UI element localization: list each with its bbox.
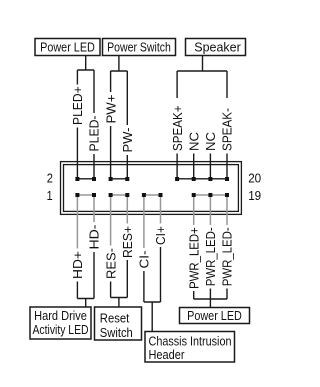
svg-text:SPEAK-: SPEAK- [220,108,235,151]
svg-text:Activity LED: Activity LED [33,322,89,337]
wire: NC segment to pin 18 [209,154,211,178]
wire: CI pair lower bracket to Chassis Intrusion Header box [144,247,161,332]
wire: PWR_LED+ gray segment from pin 15 [193,197,195,225]
pin pair connector pins 2-4 (top row) [77,178,94,180]
wire: HD pair lower bracket to Hard Drive Activity LED box [77,252,94,307]
svg-text:Switch: Switch [100,325,133,340]
Chassis Intrusion Header box (bottom) [145,332,235,363]
wire: HD- gray segment from pin 3 [93,197,95,222]
wire: PWR_LED- gray segment from pin 17 [209,197,211,225]
pin 18 [208,177,212,181]
pin group connector pins 14-20 (top row) [177,178,227,180]
svg-text:Reset: Reset [100,311,130,326]
svg-text:RES+: RES+ [120,226,135,258]
Speaker connector box (top) [186,39,246,56]
pin 4 [92,177,96,181]
svg-text:SPEAK+: SPEAK+ [170,106,185,152]
pin 8 [125,177,129,181]
front panel header outer outline [61,162,242,215]
Reset Switch box (bottom) [95,307,142,340]
svg-text:PWR_LED-: PWR_LED- [203,227,218,286]
pin 3 [92,193,96,197]
pin 7 [125,193,129,197]
svg-text:PWR_LED-: PWR_LED- [220,227,235,286]
wire: PLED+ lower segment to pin 2 [76,128,78,178]
wire: PWR_LED trio lower bracket to Power LED box [194,289,227,308]
svg-text:PW-: PW- [120,128,135,153]
wire: PWR_LED- gray segment from pin 19 [226,197,228,225]
pin 14 [175,177,179,181]
svg-text:Power LED: Power LED [40,40,95,55]
pin pair connector pins 6-8 (top row) [111,178,128,180]
wire: PW+ lower segment to pin 6 [110,126,112,177]
pin pair connector pins 1-3 (bottom row, gray) [77,194,94,196]
Power Switch connector box (top) [103,39,176,56]
pin pair connector pins 9-11 (bottom row, gray) [144,194,161,196]
wire: SPEAK+ lower segment to pin 14 [176,154,178,178]
svg-text:PWR_LED+: PWR_LED+ [186,227,201,289]
wire: PLED- lower segment to pin 4 [93,154,95,177]
wire: HD+ gray segment from pin 1 [76,197,78,249]
svg-text:NC: NC [186,132,201,151]
Power LED connector box (top) [35,39,100,56]
svg-text:20: 20 [248,170,261,185]
svg-text:Header: Header [149,347,186,362]
svg-text:HD+: HD+ [70,251,85,279]
svg-text:HD-: HD- [87,225,102,250]
svg-text:19: 19 [248,188,261,203]
pin 2 [75,177,79,181]
pin pair connector pins 5-7 (bottom row, gray) [111,194,128,196]
pin 5 [109,193,113,197]
svg-text:Hard Drive: Hard Drive [34,308,87,323]
svg-text:Power Switch: Power Switch [107,40,171,55]
pin 16 [192,177,196,181]
svg-text:RES-: RES- [103,248,118,279]
pin 11 [159,193,163,197]
Power LED box (bottom) [180,308,250,324]
pin 15 [192,193,196,197]
pin 1 [75,193,79,197]
svg-text:PLED+: PLED+ [70,86,85,125]
pin 17 [208,193,212,197]
wire: CI+ gray segment from pin 11 [160,197,162,224]
wire: PW- lower segment to pin 8 [126,155,128,177]
pin 20 [225,177,229,181]
pin 9 [142,193,146,197]
svg-text:2: 2 [47,170,53,185]
pin group connector pins 15-19 (bottom row, gray) [194,194,227,196]
svg-text:Power LED: Power LED [187,308,242,323]
pin 6 [109,177,113,181]
svg-text:PLED-: PLED- [87,116,102,152]
wire: SPEAK- lower segment to pin 20 [226,154,228,178]
Hard Drive Activity LED box (bottom) [30,307,91,339]
svg-text:CI-: CI- [137,251,152,269]
wire: Speaker stub and bracket to pins 14..20 [177,56,227,99]
pin 19 [225,193,229,197]
front panel header inner outline [64,165,239,212]
svg-text:Speaker: Speaker [194,40,241,55]
wire: Power LED stub and bracket to pins 2,4 [77,56,94,114]
svg-text:CI+: CI+ [153,226,168,245]
wire: Power Switch stub and bracket to pins 6,8 [111,56,128,126]
wire: RES+ gray segment from pin 7 [126,197,128,224]
svg-text:NC: NC [203,132,218,151]
wire: RES- gray segment from pin 5 [110,197,112,246]
wire: RES pair lower bracket to Reset Switch box [111,260,128,307]
svg-text:PW+: PW+ [103,95,118,124]
wire: CI- gray segment from pin 9 [143,197,145,248]
svg-text:1: 1 [47,188,53,203]
wire: NC segment to pin 16 [193,154,195,178]
